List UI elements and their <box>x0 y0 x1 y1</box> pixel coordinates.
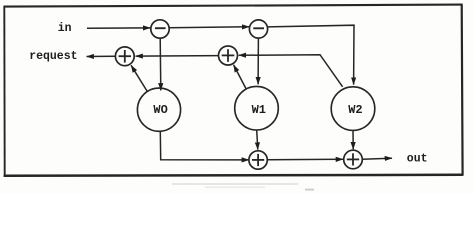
wire W1 down into adder A3 <box>257 130 258 150</box>
frame border right <box>461 4 464 175</box>
svg-text:in: in <box>58 22 72 35</box>
wire adder A3 to adder A4 <box>267 158 343 161</box>
wire S1 down into W0 <box>159 38 162 90</box>
wire S2 right then down into W2 <box>268 25 354 84</box>
wire W2 down into adder A4 <box>352 130 354 149</box>
subtractor S2 (circled minus) <box>249 20 267 38</box>
weight W2 <box>331 87 375 131</box>
wire from W2 tap to adder A2 <box>239 55 343 87</box>
wire S1 to subtractor S2 <box>169 26 249 29</box>
faint cropped caption below frame <box>172 183 314 190</box>
wire W0 down and right into adder A3 <box>160 131 249 160</box>
subtractor S1 (circled minus) <box>151 20 169 38</box>
svg-text:WO: WO <box>153 103 167 117</box>
frame border top <box>4 5 463 7</box>
weight W1 <box>235 86 279 130</box>
wire adder A1 to request output <box>87 55 115 57</box>
weight W0 <box>137 88 180 131</box>
svg-text:request: request <box>29 50 77 63</box>
wire W1 tap to adder A2 <box>234 65 247 90</box>
adder A2 (circled plus) <box>219 46 238 65</box>
svg-text:W2: W2 <box>348 103 362 117</box>
frame border bottom <box>4 175 463 176</box>
adder A3 (circled plus) <box>249 151 267 169</box>
wire in to subtractor S1 <box>87 27 150 29</box>
svg-text:out: out <box>407 152 428 165</box>
wire W0 tap to adder A1 <box>131 65 148 92</box>
wire S2 down into W1 <box>257 38 259 84</box>
frame border left <box>3 6 5 177</box>
adder A4 (circled plus) <box>344 150 363 169</box>
wire A4 to out <box>362 158 392 159</box>
wire adder A2 to adder A1 <box>136 55 219 58</box>
svg-text:W1: W1 <box>252 103 266 117</box>
adder A1 (circled plus) <box>115 47 134 66</box>
